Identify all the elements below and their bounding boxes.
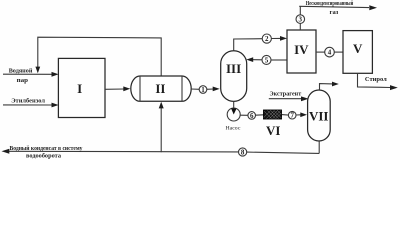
wire condensate bottom line xyxy=(247,152,320,153)
wire ethylbenzene inlet line xyxy=(3,104,54,106)
separator block V xyxy=(343,31,372,74)
svg-text:Водный конденсат в систему: Водный конденсат в систему xyxy=(10,145,84,152)
svg-text:I: I xyxy=(77,81,82,96)
svg-text:газ: газ xyxy=(330,9,339,16)
arrowhead condensate to water system xyxy=(2,149,10,154)
wire I to II xyxy=(105,88,124,90)
column III xyxy=(221,51,247,102)
svg-text:III: III xyxy=(226,61,241,76)
arrowhead circle 1 to III xyxy=(213,87,220,92)
node 4 xyxy=(325,47,335,57)
wire II to circle 1 xyxy=(191,88,199,90)
node 6 xyxy=(248,112,256,120)
wire circle 2 to IV xyxy=(271,37,280,39)
node 1 xyxy=(199,86,207,94)
arrowhead condensate up into II xyxy=(159,102,164,109)
svg-text:6: 6 xyxy=(250,112,254,120)
wire styrene outlet xyxy=(358,73,391,87)
svg-text:водооборота: водооборота xyxy=(26,152,62,159)
wire circle 4 to V xyxy=(334,51,343,53)
wire VII bottom to condensate line xyxy=(318,141,320,153)
wire circle 5 to III xyxy=(253,59,263,61)
wire IV to circle 4 xyxy=(316,51,325,53)
svg-text:Этилбензол: Этилбензол xyxy=(11,98,45,105)
cooler VI hatched box xyxy=(264,110,282,119)
svg-text:пар: пар xyxy=(17,77,29,84)
wire condensate branch up into II bottom xyxy=(160,108,162,153)
arrowhead VII top outlet xyxy=(332,82,339,87)
node 8 xyxy=(239,148,247,156)
wire VII top outlet xyxy=(320,84,333,90)
arrowhead recycle down into steam line xyxy=(35,67,40,74)
wire extractant inlet xyxy=(269,98,302,100)
svg-text:8: 8 xyxy=(241,149,245,157)
svg-text:IV: IV xyxy=(294,42,309,57)
pump rotor wedge xyxy=(231,108,237,114)
wire circle 6 to cooler VI xyxy=(255,114,263,116)
svg-text:Несконденсированный: Несконденсированный xyxy=(306,0,354,7)
pump xyxy=(227,108,240,121)
arrowhead circle 7 into VII xyxy=(300,112,307,117)
wire circle 7 to VII xyxy=(296,114,301,116)
condenser block IV xyxy=(287,30,316,73)
arrowhead extractant into VII xyxy=(301,96,309,101)
arrowhead ethylbenzene into I xyxy=(52,103,59,108)
node 5 xyxy=(262,55,271,64)
node 7 xyxy=(288,111,296,119)
arrowhead gas outlet xyxy=(369,5,377,10)
vessel II xyxy=(131,76,191,101)
arrowhead circle 5 into III xyxy=(246,57,253,62)
svg-text:VI: VI xyxy=(266,123,280,138)
svg-text:7: 7 xyxy=(290,112,294,120)
arrowhead I to II xyxy=(123,86,130,91)
reactor block I xyxy=(58,58,105,117)
svg-text:1: 1 xyxy=(201,86,205,94)
wire non-condensed gas outlet xyxy=(299,6,369,7)
svg-text:II: II xyxy=(155,81,165,96)
arrowhead steam into I xyxy=(52,72,59,77)
svg-text:VII: VII xyxy=(309,108,329,123)
stream numbers xyxy=(201,16,332,157)
svg-text:Стирол: Стирол xyxy=(365,76,387,83)
svg-text:Насос: Насос xyxy=(226,126,241,132)
node 2 xyxy=(262,34,271,43)
wire circle 3 to gas line xyxy=(299,6,301,14)
wire condensate line to left outlet xyxy=(9,150,239,153)
wire cooler VI to circle 7 xyxy=(282,114,289,117)
wire III top to circle 2 xyxy=(234,39,263,51)
svg-text:4: 4 xyxy=(328,49,332,57)
svg-text:2: 2 xyxy=(265,35,269,43)
wire recycle loop from vessel II top to steam inlet xyxy=(38,37,161,76)
wire pump to circle 6 xyxy=(240,114,248,116)
svg-text:3: 3 xyxy=(299,16,303,24)
wire circle 1 to column III xyxy=(207,88,214,90)
wire IV to circle 5 xyxy=(271,59,287,61)
svg-text:V: V xyxy=(353,41,363,56)
svg-text:5: 5 xyxy=(265,56,269,64)
svg-text:Экстрагент: Экстрагент xyxy=(270,90,302,97)
extractor column VII xyxy=(308,90,331,141)
wire III bottom to pump xyxy=(233,101,235,108)
arrowhead circle 2 into IV xyxy=(280,36,287,41)
node 3 xyxy=(296,15,305,24)
arrowhead styrene outlet xyxy=(390,85,398,90)
svg-text:Водяной: Водяной xyxy=(9,67,33,74)
wire steam inlet line xyxy=(3,73,54,75)
wire IV top to circle 3 xyxy=(299,23,301,30)
